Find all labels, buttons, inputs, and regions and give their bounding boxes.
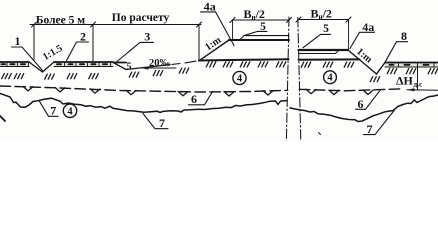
dim line Bn/2 left (233, 19, 290, 21)
svg-text:5: 5 (127, 61, 132, 72)
label 5 shelf bar (115, 62, 127, 64)
moss band left A bottom line (0, 66, 29, 68)
permafrost wavy line right (290, 95, 438, 122)
leader of label 2 (67, 42, 89, 61)
tick right Bn/2 b (346, 17, 351, 22)
svg-text:3: 3 (144, 29, 150, 43)
svg-text:5: 5 (260, 21, 266, 33)
svg-text:6: 6 (191, 92, 197, 106)
extension line x=34 (33, 25, 35, 60)
leader of 5 left (244, 31, 267, 35)
moss band fill right (385, 63, 438, 68)
hatch groups left band (2, 74, 12, 79)
moss band right dividers (399, 63, 435, 68)
arrow line at right edge (407, 89, 438, 92)
leader of 5 right (303, 34, 331, 47)
ditch right-side slope (377, 63, 386, 75)
svg-text:4а: 4а (362, 20, 374, 34)
moss band right marks (390, 64, 429, 66)
pavement lens line left (244, 35, 289, 37)
moss band A marks (2, 63, 26, 65)
leader of 4a right (350, 32, 375, 48)
tick at x=93 (91, 22, 96, 27)
leader of 7 first left (40, 101, 59, 116)
thaw boundary dashed left (0, 86, 288, 92)
delta H extension vertical (417, 63, 419, 90)
svg-text:4а: 4а (204, 0, 216, 13)
ground line right section (299, 58, 360, 60)
hatch group right ditch (370, 77, 380, 82)
dim line Bn/2 right (299, 19, 349, 21)
ditch right slope (43, 62, 55, 72)
hatch groups right band (387, 69, 397, 74)
moss band right bottom line (385, 66, 438, 68)
svg-text:4: 4 (237, 74, 243, 85)
moss band A dividers (7, 62, 29, 67)
extension line x=93 (92, 25, 94, 62)
svg-text:4: 4 (327, 73, 333, 84)
svg-text:7: 7 (159, 116, 165, 130)
pavement lens taper left (240, 36, 244, 40)
notch c right dashed (363, 90, 373, 95)
embankment top surface right (299, 49, 349, 51)
excavation bottom solid part (126, 65, 170, 70)
extension x=232.5 to crest (232, 20, 234, 40)
leader of 7 second left (143, 114, 168, 129)
moss band B dividers (65, 62, 111, 67)
ground line under left embankment (199, 59, 289, 60)
dimension line top-left (30, 24, 201, 26)
tick at x=34 (32, 22, 37, 27)
moss band left A top line (0, 61, 29, 63)
embankment slope 1:m left (199, 40, 229, 61)
left edge small tick (0, 116, 5, 121)
tick left Bn/2 a (230, 18, 235, 23)
notch a left dashed (23, 86, 33, 91)
pavement taper right (336, 51, 339, 54)
notch a right dashed (306, 89, 316, 94)
moss band left B bottom line (54, 66, 113, 68)
moss band right top line (385, 62, 438, 64)
svg-text:1: 1 (15, 34, 21, 48)
leader of 4a left (201, 12, 235, 46)
arrowhead pointing left (407, 88, 415, 91)
svg-text:6: 6 (358, 97, 364, 111)
svg-text:Более 5 м: Более 5 м (36, 14, 85, 26)
tick right Bn/2 a (296, 17, 301, 22)
svg-text:7: 7 (367, 122, 373, 136)
extension line x=199 (embankment toe) (198, 25, 200, 61)
centerline of right section (298, 18, 301, 142)
notch g left dashed (263, 91, 273, 95)
hatch groups right ground (301, 62, 311, 67)
svg-text:2: 2 (80, 30, 86, 44)
circle 4 right section (324, 71, 337, 84)
notch b right dashed (329, 90, 339, 95)
circle 4 bottom left (63, 104, 76, 117)
moss band left B top line (54, 61, 113, 63)
excavation bottom dashed part (172, 61, 196, 64)
notch e left dashed (178, 91, 188, 96)
extension x=348.5 to crest (348, 20, 350, 50)
cut slope 1:m right (348, 50, 377, 74)
permafrost wavy line left (0, 94, 287, 113)
embankment top surface left (229, 39, 289, 41)
notch c left dashed (90, 89, 100, 94)
svg-text:8: 8 (401, 29, 407, 43)
leader of 6 right (356, 90, 381, 110)
leader of label 3 (117, 42, 154, 61)
svg-text:7: 7 (50, 104, 56, 118)
thaw boundary dashed right (299, 89, 403, 91)
tick left Bn/2 b (287, 18, 292, 23)
svg-text:По расчету: По расчету (112, 12, 170, 24)
leader of label 1 (12, 47, 43, 71)
20 permille arrow line (141, 67, 176, 69)
pavement underside line right (299, 53, 336, 55)
notch d left dashed (126, 90, 136, 95)
svg-text:5: 5 (323, 23, 329, 35)
leader of 6 left (189, 92, 213, 105)
excavation entrance slope (113, 62, 126, 69)
hatch groups under left embankment (206, 62, 216, 67)
moss band B marks (57, 63, 107, 65)
leader of 7 right (364, 110, 395, 135)
moss band fill A (0, 62, 29, 67)
tick at x=199 (197, 22, 202, 27)
moss band fill B (54, 62, 113, 67)
svg-text:20‰: 20‰ (149, 58, 171, 69)
small speck (319, 133, 321, 135)
circle 4 under left embankment (233, 71, 246, 84)
notch b left dashed (55, 87, 65, 92)
notch f left dashed (224, 92, 234, 97)
svg-text:4: 4 (67, 106, 73, 117)
centerline of left section (286, 17, 289, 141)
ditch left slope (29, 62, 43, 72)
leader of 8 (385, 42, 408, 63)
20 permille arrowhead (141, 66, 149, 69)
hatch groups excavation bottom (129, 72, 139, 77)
